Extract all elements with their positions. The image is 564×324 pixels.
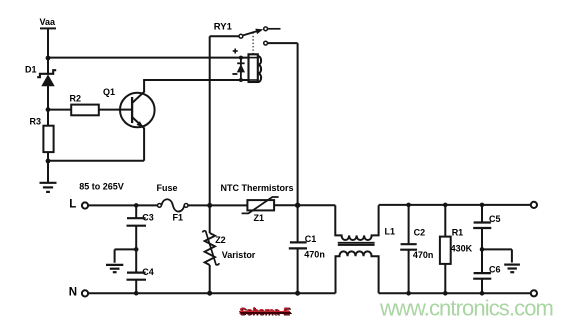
svg-text:Schema-E: Schema-E	[239, 306, 291, 318]
capacitor C6	[473, 264, 500, 295]
svg-text:L1: L1	[385, 226, 396, 236]
wire N rail right section	[379, 292, 531, 294]
wire Z1 to transformer	[274, 204, 335, 206]
svg-text:C2: C2	[414, 227, 426, 237]
svg-text:D1: D1	[25, 65, 37, 75]
wire relay NO contact to C1 node	[268, 43, 298, 205]
svg-text:F1: F1	[173, 213, 184, 223]
node junction C3/C4/ground	[134, 247, 139, 252]
common-mode choke L1	[335, 205, 395, 293]
svg-text:85 to 265V: 85 to 265V	[79, 181, 124, 191]
plus label coil	[233, 49, 238, 54]
capacitor C5	[473, 203, 500, 274]
ground (left, Vaa circuit)	[40, 161, 57, 192]
NTC thermistor Z1	[242, 197, 279, 223]
svg-text:Q1: Q1	[103, 87, 115, 97]
svg-text:Varistor: Varistor	[222, 250, 256, 260]
capacitor C2 470n	[400, 203, 433, 296]
wire Q1 emitter to ground node	[48, 128, 144, 161]
node junction C5/C6/ground	[480, 247, 485, 252]
wire fuse to Z1	[188, 204, 247, 206]
flyback diode across relay coil	[237, 56, 245, 82]
wire L terminal to fuse	[88, 204, 158, 206]
ground (mains filter)	[106, 249, 136, 272]
terminal output top	[531, 202, 537, 208]
svg-text:470n: 470n	[304, 250, 325, 260]
svg-text:RY1: RY1	[214, 22, 233, 33]
capacitor C3	[127, 203, 154, 273]
transistor Q1	[103, 87, 155, 128]
resistor R1 430K	[440, 203, 473, 296]
wire node to relay coil +	[48, 57, 249, 59]
svg-text:www.cntronics.com: www.cntronics.com	[379, 296, 553, 321]
minus label coil	[232, 73, 237, 75]
relay switch RY1	[239, 27, 281, 45]
terminal L	[69, 198, 88, 210]
resistor R3	[30, 110, 54, 161]
capacitor C4	[127, 267, 154, 295]
node junction D1/R2/R3	[46, 107, 51, 112]
svg-text:Z1: Z1	[254, 213, 265, 223]
capacitor C1 470n	[289, 205, 325, 296]
node junction R3/emitter/ground	[46, 159, 51, 164]
svg-text:Fuse: Fuse	[157, 183, 178, 193]
svg-text:R3: R3	[30, 116, 42, 126]
wire N rail left	[88, 292, 335, 294]
svg-text:R2: R2	[70, 94, 82, 104]
terminal N	[69, 287, 88, 299]
relay actuator dotted link	[252, 33, 254, 54]
svg-text:R1: R1	[452, 227, 464, 237]
svg-text:L: L	[69, 198, 76, 210]
svg-text:430K: 430K	[451, 244, 473, 254]
zener diode D1	[25, 58, 56, 110]
resistor R2	[48, 94, 132, 116]
svg-text:NTC Thermistors: NTC Thermistors	[221, 183, 294, 193]
svg-text:N: N	[69, 287, 77, 299]
fuse F1	[157, 183, 189, 222]
svg-text:470n: 470n	[413, 250, 434, 260]
svg-text:Z2: Z2	[215, 235, 226, 245]
svg-text:Vaa: Vaa	[40, 17, 57, 27]
wire top rail right section	[379, 204, 531, 206]
node junction Vaa/D1/relay	[46, 56, 51, 61]
power rail Vaa	[40, 17, 57, 58]
terminal output bottom	[531, 290, 537, 296]
varistor Z2	[202, 205, 255, 295]
ground (output side)	[482, 249, 520, 272]
node junction relay NO wire / rail / C1	[295, 203, 300, 208]
wire relay switch pole to L rail	[210, 36, 240, 205]
node junction relay wire / L rail	[207, 203, 212, 208]
wire Q1 collector to relay coil -	[143, 80, 248, 92]
relay coil RY1	[249, 54, 262, 82]
